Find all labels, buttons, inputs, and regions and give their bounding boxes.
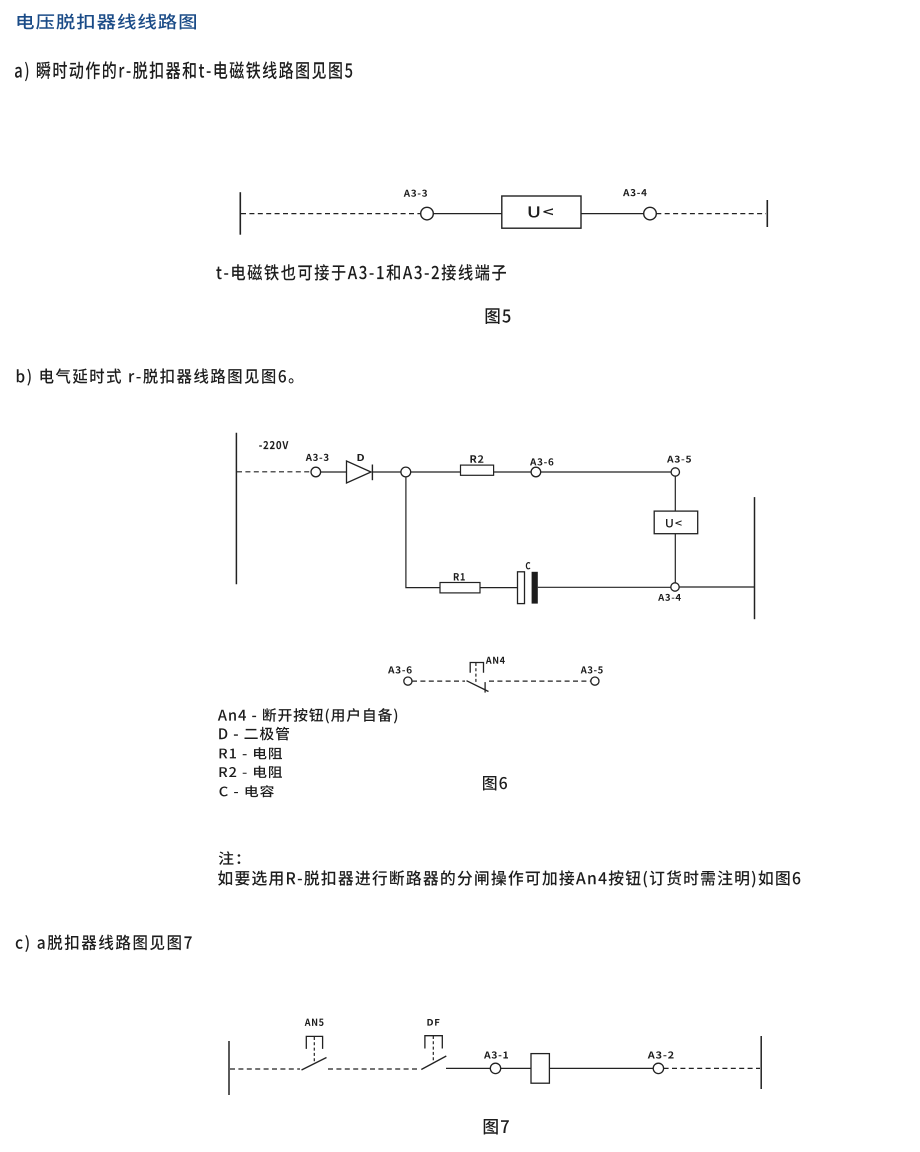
fig7 wire dashed AN5 to DF bbox=[328, 1068, 419, 1070]
note under fig5 bbox=[216, 264, 506, 281]
caption 图5 bbox=[486, 308, 511, 324]
fig6 relay value label U< bbox=[666, 519, 682, 528]
sub terminal A3-5 bbox=[591, 677, 599, 685]
fig6 wire dashed from bar bbox=[237, 471, 311, 473]
fig7 left bar bbox=[228, 1041, 230, 1095]
fig6 label A3-3 bbox=[306, 454, 329, 461]
diode D label bbox=[358, 454, 365, 461]
paragraph b) bbox=[17, 368, 294, 385]
caption 图7 bbox=[484, 1119, 509, 1135]
fig5 label A3-4 bbox=[623, 189, 647, 196]
paragraph c) bbox=[16, 935, 192, 952]
fig7 wire DF to A3-1 bbox=[446, 1067, 490, 1069]
fig6 node A3-5 bbox=[671, 468, 679, 476]
fig6 right bar bbox=[754, 497, 756, 619]
fig5 right terminal bar bbox=[766, 200, 768, 227]
fig7 label A3-2 bbox=[648, 1051, 674, 1058]
fig6 junction node bbox=[401, 467, 411, 477]
sub wire dashed right bbox=[489, 680, 591, 682]
fig6 wire relay down to A3-4 bbox=[674, 534, 676, 583]
fig7 terminal A3-2 bbox=[653, 1063, 663, 1073]
fig6 node A3-4 bbox=[671, 583, 679, 591]
legend line 2 bbox=[219, 727, 289, 741]
legend line 4 bbox=[220, 766, 283, 778]
fig6 label A3-6 bbox=[530, 458, 553, 465]
resistor R1 label bbox=[454, 573, 465, 580]
paragraph a) bbox=[15, 61, 352, 81]
fig6 wire diode to junction bbox=[372, 471, 401, 473]
legend line 5 bbox=[220, 785, 274, 797]
sub label A3-6 bbox=[388, 666, 412, 673]
switch DF (NO) bbox=[421, 1036, 446, 1070]
fig6 left supply bar bbox=[235, 433, 237, 584]
legend line 1 bbox=[218, 708, 397, 723]
fig7 release coil box bbox=[531, 1054, 549, 1084]
capacitor C label bbox=[526, 562, 531, 569]
title 电压脱扣器线线路图 bbox=[18, 14, 197, 30]
fig5 left terminal bar bbox=[239, 192, 241, 235]
fig6 undervoltage relay U2 box bbox=[654, 511, 698, 534]
fig6 terminal A3-6 bbox=[531, 467, 541, 477]
fig5 terminal A3-4 bbox=[644, 207, 657, 220]
resistor R2 label bbox=[470, 455, 483, 463]
fig6 wire A3-6 to A3-5 bbox=[541, 471, 671, 473]
note heading bbox=[219, 851, 241, 865]
fig6 wire junction down and to R1 bbox=[406, 477, 440, 588]
fig5 undervoltage relay U1 box bbox=[502, 196, 581, 228]
fig7 wire dashed to right bar bbox=[664, 1067, 760, 1069]
fig6 wire R2 to A3-6 bbox=[494, 471, 531, 473]
pushbutton AN5 label bbox=[305, 1019, 324, 1026]
fig7 wire coil to A3-2 bbox=[549, 1067, 653, 1069]
fig5 wire dashed right bbox=[656, 213, 766, 215]
fig5 wire to relay bbox=[433, 213, 502, 215]
fig6 wire capacitor to A3-4 bbox=[538, 586, 671, 588]
pushbutton AN4 label bbox=[486, 657, 505, 664]
fig6 terminal A3-3 bbox=[311, 467, 321, 477]
switch DF label bbox=[427, 1019, 439, 1026]
sub wire dashed left bbox=[412, 680, 465, 682]
resistor R1 bbox=[440, 583, 480, 593]
fig5 terminal A3-3 bbox=[421, 207, 434, 220]
fig7 wire dashed to AN5 bbox=[230, 1068, 300, 1070]
fig7 right bar bbox=[760, 1036, 762, 1089]
caption 图6 bbox=[483, 776, 507, 791]
note body bbox=[218, 870, 800, 887]
pushbutton AN5 (NO) bbox=[302, 1036, 327, 1070]
fig7 label A3-1 bbox=[484, 1051, 508, 1058]
fig6 label A3-4 bbox=[658, 594, 681, 601]
sub label A3-5 bbox=[581, 666, 603, 673]
fig6 label A3-5 bbox=[667, 456, 691, 463]
fig7 terminal A3-1 bbox=[490, 1063, 500, 1073]
fig5 wire dashed left bbox=[241, 213, 421, 215]
fig6 wire A3-4 to right bar bbox=[679, 586, 754, 588]
fig6 label -220V bbox=[259, 441, 288, 449]
fig6 wire R1 to capacitor bbox=[480, 587, 518, 589]
pushbutton AN4 (NC) bbox=[467, 663, 489, 693]
fig5 label A3-3 bbox=[404, 190, 427, 197]
capacitor C bbox=[518, 572, 538, 604]
fig6 wire junction to R2 bbox=[411, 471, 461, 473]
diode D bbox=[347, 461, 373, 483]
fig5 wire from relay bbox=[581, 213, 644, 215]
fig6 wire to diode bbox=[321, 471, 347, 473]
sub terminal A3-6 bbox=[404, 677, 412, 685]
resistor R2 bbox=[461, 465, 494, 475]
fig7 wire A3-1 to coil bbox=[501, 1067, 531, 1069]
fig6 wire A3-5 down to relay bbox=[674, 476, 676, 511]
legend line 3 bbox=[220, 747, 283, 759]
fig5 relay value label U< bbox=[529, 206, 553, 217]
